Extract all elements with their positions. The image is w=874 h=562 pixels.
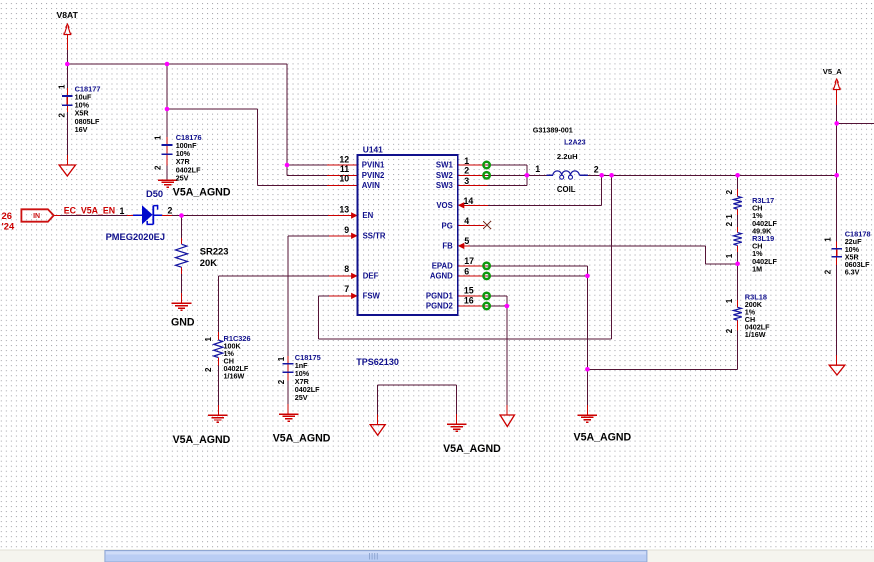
svg-text:9: 9 — [344, 225, 349, 235]
svg-text:EC_V5A_EN: EC_V5A_EN — [64, 206, 115, 216]
svg-text:2.2uH: 2.2uH — [557, 152, 578, 161]
svg-text:1: 1 — [725, 214, 734, 219]
svg-text:SW3: SW3 — [436, 181, 454, 190]
svg-text:1: 1 — [824, 237, 833, 242]
svg-text:1: 1 — [204, 337, 213, 342]
svg-text:1M: 1M — [752, 264, 762, 273]
svg-text:5: 5 — [464, 236, 469, 246]
svg-text:SW1: SW1 — [436, 161, 454, 170]
svg-text:2: 2 — [277, 379, 286, 384]
svg-text:2: 2 — [725, 221, 734, 226]
svg-text:16V: 16V — [75, 125, 88, 134]
svg-text:U141: U141 — [363, 144, 383, 154]
svg-text:1: 1 — [725, 253, 734, 258]
svg-text:8: 8 — [344, 264, 349, 274]
svg-text:PG: PG — [442, 221, 453, 230]
svg-text:G31389-001: G31389-001 — [533, 126, 573, 135]
svg-text:V5_A: V5_A — [823, 67, 843, 76]
svg-text:COIL: COIL — [557, 185, 576, 194]
svg-text:17: 17 — [464, 256, 474, 266]
svg-text:6: 6 — [464, 267, 469, 277]
svg-text:20K: 20K — [200, 257, 217, 268]
svg-text:2: 2 — [154, 165, 163, 170]
svg-text:FSW: FSW — [363, 292, 381, 301]
svg-text:V5A_AGND: V5A_AGND — [273, 432, 331, 444]
svg-text:16: 16 — [464, 296, 474, 306]
svg-text:2: 2 — [58, 113, 67, 118]
svg-text:1/16W: 1/16W — [224, 371, 245, 380]
svg-text:IN: IN — [33, 213, 40, 220]
svg-text:25V: 25V — [295, 393, 308, 402]
svg-text:1: 1 — [277, 356, 286, 361]
svg-text:2: 2 — [824, 269, 833, 274]
svg-text:AGND: AGND — [430, 272, 453, 281]
svg-text:1: 1 — [725, 298, 734, 303]
svg-text:10: 10 — [339, 173, 349, 183]
svg-text:AVIN: AVIN — [362, 181, 380, 190]
svg-text:3: 3 — [464, 176, 469, 186]
svg-text:V5A_AGND: V5A_AGND — [173, 186, 231, 198]
svg-text:V8AT: V8AT — [57, 10, 79, 20]
svg-text:DEF: DEF — [363, 272, 379, 281]
svg-text:SR223: SR223 — [200, 246, 229, 257]
svg-text:2: 2 — [168, 205, 173, 215]
svg-text:2: 2 — [725, 189, 734, 194]
svg-text:2: 2 — [204, 367, 213, 372]
svg-text:VOS: VOS — [436, 201, 452, 210]
svg-text:15: 15 — [464, 285, 474, 295]
svg-text:6.3V: 6.3V — [845, 268, 860, 277]
svg-text:EPAD: EPAD — [432, 261, 453, 270]
svg-text:12: 12 — [339, 154, 349, 164]
svg-text:V5A_AGND: V5A_AGND — [173, 434, 231, 446]
svg-text:1: 1 — [120, 206, 125, 216]
svg-text:PMEG2020EJ: PMEG2020EJ — [106, 232, 165, 242]
svg-text:D50: D50 — [146, 189, 163, 199]
svg-text:GND: GND — [171, 317, 195, 329]
svg-text:1: 1 — [464, 156, 469, 166]
svg-text:PGND1: PGND1 — [426, 292, 454, 301]
svg-text:PVIN2: PVIN2 — [362, 171, 385, 180]
svg-text:13: 13 — [339, 205, 349, 215]
svg-text:14: 14 — [464, 196, 474, 206]
svg-text:SW2: SW2 — [436, 171, 454, 180]
svg-text:PVIN1: PVIN1 — [362, 161, 385, 170]
svg-text:1: 1 — [154, 135, 163, 140]
svg-text:7: 7 — [344, 284, 349, 294]
svg-text:FB: FB — [442, 242, 453, 251]
svg-text:V5A_AGND: V5A_AGND — [443, 443, 501, 455]
svg-text:2: 2 — [464, 166, 469, 176]
svg-text:'24: '24 — [2, 221, 15, 232]
svg-text:TPS62130: TPS62130 — [356, 357, 399, 367]
svg-text:PGND2: PGND2 — [426, 302, 454, 311]
svg-text:2: 2 — [725, 328, 734, 333]
svg-text:4: 4 — [464, 216, 469, 226]
svg-text:1: 1 — [535, 164, 540, 174]
svg-text:EN: EN — [362, 211, 373, 220]
svg-text:L2A23: L2A23 — [564, 138, 586, 147]
svg-text:25V: 25V — [176, 173, 189, 182]
svg-text:1/16W: 1/16W — [745, 330, 766, 339]
svg-text:2: 2 — [594, 165, 599, 175]
svg-text:SS/TR: SS/TR — [363, 232, 386, 241]
svg-text:1: 1 — [58, 84, 67, 89]
svg-text:V5A_AGND: V5A_AGND — [574, 431, 632, 443]
